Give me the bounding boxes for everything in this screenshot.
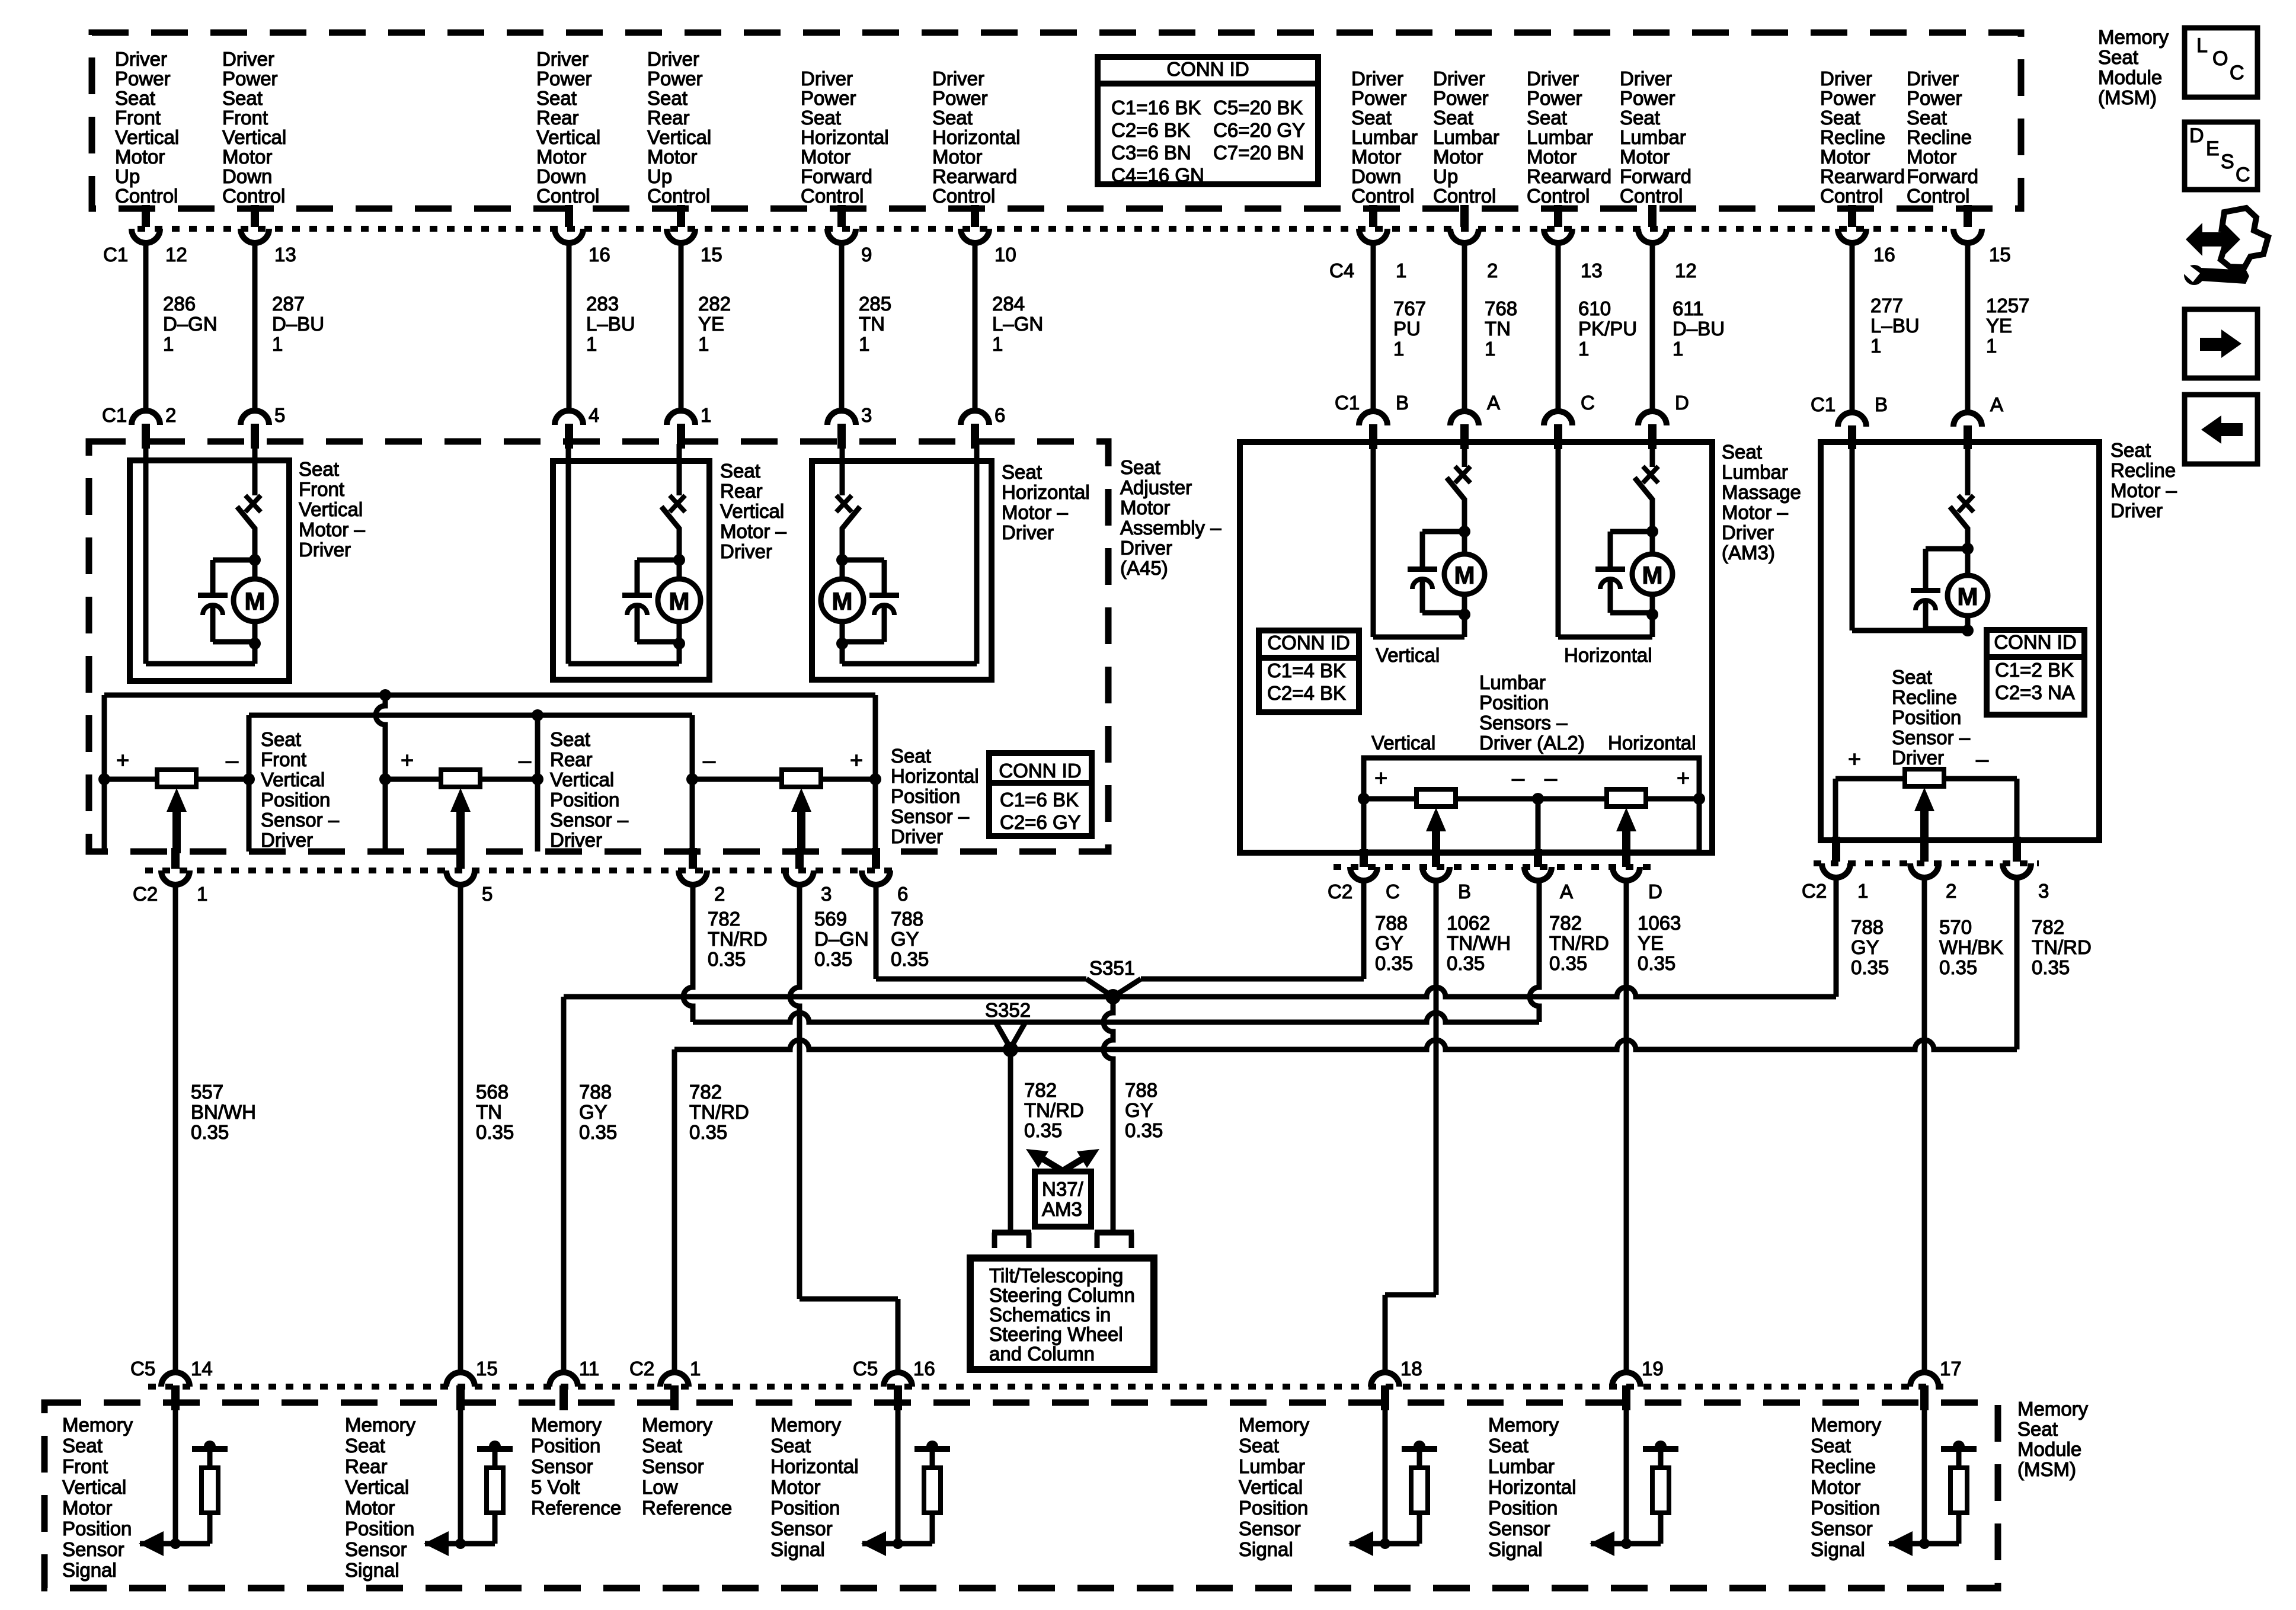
svg-text:Adjuster: Adjuster [1120, 476, 1192, 498]
svg-text:C2=3 NA: C2=3 NA [1995, 681, 2075, 703]
svg-text:TN/RD: TN/RD [689, 1101, 749, 1123]
svg-text:GY: GY [1375, 932, 1403, 954]
wire 788 GY (lumbar C to S351) [1113, 881, 1413, 997]
svg-text:3: 3 [2038, 880, 2049, 902]
svg-text:Up: Up [647, 165, 672, 187]
svg-text:Down: Down [536, 165, 586, 187]
svg-text:Memory: Memory [770, 1414, 842, 1436]
Seat Lumbar Massage Motor (AM3) box [1240, 442, 1712, 853]
svg-text:6: 6 [994, 404, 1005, 426]
svg-text:Driver: Driver [536, 48, 589, 70]
svg-text:Seat: Seat [222, 87, 263, 109]
Seat Recline Motor box [1821, 442, 2099, 840]
svg-text:C2: C2 [629, 1358, 654, 1379]
svg-text:Sensor: Sensor [770, 1518, 833, 1539]
svg-text:A: A [1560, 881, 1573, 902]
svg-text:Control: Control [932, 185, 995, 207]
svg-text:Vertical: Vertical [261, 769, 325, 790]
svg-text:Seat: Seat [345, 1435, 385, 1457]
svg-text:Tilt/Telescoping: Tilt/Telescoping [989, 1265, 1123, 1286]
svg-text:Power: Power [115, 68, 171, 89]
svg-text:S352: S352 [985, 999, 1031, 1021]
svg-text:Up: Up [115, 165, 140, 187]
svg-text:782: 782 [1024, 1079, 1057, 1101]
svg-text:Position: Position [1239, 1497, 1308, 1519]
svg-text:Motor: Motor [1527, 146, 1576, 168]
svg-text:Seat: Seat [1002, 461, 1042, 483]
svg-text:Front: Front [222, 107, 268, 129]
label Memory Seat Lumbar Vertical [1239, 1414, 1310, 1560]
label driver control 285 [801, 68, 889, 207]
svg-text:Rear: Rear [550, 748, 593, 770]
svg-text:Rear: Rear [345, 1455, 388, 1477]
svg-text:0.35: 0.35 [1024, 1119, 1062, 1141]
svg-text:TN/RD: TN/RD [1549, 932, 1609, 954]
svg-text:Motor: Motor [647, 146, 697, 168]
svg-text:Lumbar: Lumbar [1488, 1455, 1555, 1477]
wire 1257 YE pin 15->A [1953, 205, 2029, 449]
svg-text:1: 1 [690, 1358, 701, 1379]
svg-text:568: 568 [476, 1081, 509, 1103]
svg-text:TN: TN [859, 313, 885, 335]
wire 782 TN/RD (C2-2 to S352 bus) [683, 885, 768, 1022]
svg-text:Recline: Recline [1820, 126, 1885, 148]
svg-text:Seat: Seat [1907, 107, 1947, 129]
connector MSM bottom pin 16 [853, 1358, 935, 1410]
label C1 (AM3 top row) [1335, 392, 1360, 414]
svg-text:Sensor: Sensor [1811, 1518, 1873, 1539]
svg-text:Control: Control [1620, 185, 1683, 207]
svg-text:Motor –: Motor – [1722, 501, 1789, 523]
svg-text:Module: Module [2017, 1438, 2081, 1460]
svg-text:Motor: Motor [115, 146, 165, 168]
svg-text:Seat: Seat [891, 745, 931, 767]
svg-text:L–GN: L–GN [992, 313, 1043, 335]
svg-text:Seat: Seat [2017, 1418, 2058, 1440]
svg-text:Motor: Motor [1820, 146, 1870, 168]
svg-text:Signal: Signal [770, 1538, 825, 1560]
svg-text:3: 3 [861, 404, 872, 426]
svg-text:Signal: Signal [345, 1559, 399, 1581]
motor Seat Rear Vertical Motor - Driver [553, 444, 709, 680]
svg-text:WH/BK: WH/BK [1939, 936, 2003, 958]
svg-text:(MSM): (MSM) [2017, 1458, 2076, 1480]
label driver control 768 [1433, 68, 1499, 207]
svg-text:Sensor: Sensor [1239, 1518, 1301, 1539]
svg-text:Recline: Recline [1811, 1455, 1876, 1477]
svg-text:Position: Position [550, 789, 619, 811]
CONN ID table (AM3) [1259, 630, 1359, 712]
svg-text:Position: Position [62, 1518, 132, 1539]
svg-text:Driver: Driver [1722, 521, 1774, 543]
svg-text:Seat: Seat [2098, 46, 2138, 68]
svg-text:15: 15 [1989, 244, 2011, 265]
svg-text:5 Volt: 5 Volt [531, 1476, 580, 1498]
svg-text:Seat: Seat [62, 1435, 103, 1457]
svg-text:15: 15 [701, 244, 722, 265]
svg-text:782: 782 [708, 908, 740, 930]
svg-text:+: + [1848, 747, 1861, 772]
label C1 (recline top row) [1811, 393, 1835, 415]
svg-text:Motor: Motor [536, 146, 586, 168]
svg-text:782: 782 [689, 1081, 722, 1103]
connector MSM bottom pin 1 [629, 1358, 701, 1410]
svg-text:1062: 1062 [1447, 912, 1490, 934]
MSM bottom connector dotted line [148, 1384, 1950, 1390]
svg-text:Horizontal: Horizontal [1608, 732, 1696, 754]
svg-text:Control: Control [1820, 185, 1883, 207]
svg-text:C2: C2 [1802, 880, 1827, 902]
svg-text:Front: Front [115, 107, 161, 129]
svg-text:5: 5 [482, 883, 493, 905]
splice S351 and 788 GY bus [564, 957, 1836, 1004]
label Memory Seat Front Vertical [62, 1414, 133, 1581]
svg-text:Rearward: Rearward [1527, 165, 1611, 187]
svg-text:–: – [703, 748, 716, 773]
svg-text:Motor: Motor [62, 1497, 112, 1519]
wire 568 TN 0.35 [461, 885, 514, 1372]
label C2 (recline bottom row) [1802, 880, 1827, 902]
svg-text:5: 5 [274, 404, 285, 426]
svg-text:Motor: Motor [1620, 146, 1670, 168]
connector A45 C2 pin 5 [446, 848, 493, 905]
svg-text:Motor –: Motor – [1002, 501, 1069, 523]
svg-text:Driver: Driver [801, 68, 853, 89]
svg-text:AM3: AM3 [1042, 1198, 1082, 1220]
svg-text:C: C [2230, 62, 2244, 84]
label Seat Recline Position Sensor [1892, 666, 1971, 769]
label Vertical (lumbar motor) [1376, 644, 1440, 666]
svg-text:15: 15 [476, 1358, 498, 1379]
svg-text:1: 1 [701, 404, 711, 426]
wire 1063 YE 0.35 [1626, 881, 1681, 1372]
label Memory Seat Rear Vertical [345, 1414, 416, 1581]
wire 767 PU pin 1->B [1359, 205, 1426, 449]
label Seat Rear Vertical Motor [720, 460, 787, 562]
svg-text:C2=4 BK: C2=4 BK [1267, 682, 1346, 704]
wire A45 sensor - rail [249, 709, 692, 779]
wire 788 GY (S351 drop) [1104, 997, 1163, 1230]
svg-text:Vertical: Vertical [720, 500, 784, 522]
svg-text:Front: Front [261, 748, 306, 770]
svg-text:788: 788 [579, 1081, 612, 1103]
svg-text:Horizontal: Horizontal [932, 126, 1021, 148]
svg-text:Driver: Driver [647, 48, 699, 70]
label Memory Seat Horizontal Motor [770, 1414, 859, 1560]
svg-text:Control: Control [647, 185, 710, 207]
CONN ID table (MSM) [1098, 57, 1318, 186]
wire 570 WH/BK 0.35 [1924, 878, 2003, 1372]
svg-text:1: 1 [1857, 880, 1868, 902]
svg-text:282: 282 [698, 293, 731, 315]
svg-text:14: 14 [191, 1358, 213, 1379]
svg-text:Steering Wheel: Steering Wheel [989, 1323, 1123, 1345]
svg-text:Sensor: Sensor [62, 1538, 124, 1560]
svg-text:Sensor: Sensor [1488, 1518, 1550, 1539]
connector MSM bottom pin 19 [1612, 1358, 1664, 1410]
svg-text:Seat: Seat [299, 458, 339, 480]
label driver control 277 [1820, 68, 1905, 207]
connector AM3 C2 pin B [1422, 849, 1471, 902]
label Horizontal (lumbar sensor) [1608, 732, 1696, 754]
svg-text:L–BU: L–BU [586, 313, 635, 335]
svg-text:M: M [1642, 561, 1663, 589]
svg-text:Horizontal: Horizontal [891, 765, 979, 787]
svg-text:Position: Position [1811, 1497, 1880, 1519]
svg-text:Control: Control [1433, 185, 1496, 207]
svg-text:2: 2 [714, 883, 725, 905]
svg-text:Driver: Driver [550, 829, 602, 851]
svg-text:Reference: Reference [531, 1497, 621, 1519]
wire 283 L–BU pin 16->4 [555, 205, 635, 449]
svg-text:287: 287 [272, 293, 305, 315]
svg-text:C3=6 BN: C3=6 BN [1111, 142, 1191, 164]
svg-text:Seat: Seat [647, 87, 687, 109]
connector MSM bottom pin 17 [1910, 1358, 1962, 1410]
svg-text:Position: Position [770, 1497, 840, 1519]
label C4 (MSM lumbar row) [1329, 260, 1354, 281]
svg-text:Power: Power [536, 68, 592, 89]
wire 1062 TN/WH 0.35 [1385, 881, 1511, 1372]
wire 788 GY (recline 1) [1836, 878, 1889, 997]
label driver control 1257 [1907, 68, 1978, 207]
wire 569 D-GN 0.35 [790, 885, 898, 1372]
label Lumbar Position Sensors - Driver (AL2) [1479, 671, 1585, 754]
svg-text:Driver: Driver [1527, 68, 1579, 89]
svg-text:Module: Module [2098, 66, 2162, 88]
svg-text:0.35: 0.35 [191, 1121, 229, 1143]
svg-text:Seat: Seat [1351, 107, 1392, 129]
connector AM3 C2 pin C [1350, 849, 1400, 902]
svg-text:(AM3): (AM3) [1722, 542, 1775, 564]
svg-text:1: 1 [1986, 335, 1997, 357]
svg-text:C1: C1 [102, 404, 127, 426]
svg-text:610: 610 [1578, 297, 1611, 319]
svg-text:767: 767 [1393, 297, 1426, 319]
svg-text:2: 2 [165, 404, 176, 426]
sensor signal resistor at pin 14 [139, 1406, 228, 1556]
svg-text:Seat: Seat [1722, 441, 1762, 463]
svg-text:TN/RD: TN/RD [2032, 936, 2092, 958]
label driver control 283 [536, 48, 600, 207]
CONN ID table (recline) [1987, 630, 2084, 715]
svg-text:–: – [226, 748, 239, 773]
svg-text:Seat: Seat [550, 728, 590, 750]
svg-text:16: 16 [589, 244, 610, 265]
svg-text:YE: YE [1986, 315, 2012, 337]
svg-text:Power: Power [1620, 87, 1675, 109]
svg-text:0.35: 0.35 [1851, 956, 1889, 978]
svg-text:+: + [401, 748, 414, 773]
svg-text:Driver: Driver [1907, 68, 1959, 89]
svg-text:Signal: Signal [1811, 1538, 1865, 1560]
svg-text:Motor: Motor [222, 146, 272, 168]
svg-text:+: + [1677, 766, 1690, 791]
svg-text:Seat: Seat [1488, 1435, 1528, 1457]
svg-text:782: 782 [2032, 916, 2064, 938]
wire 286 D–GN pin 12->2 [132, 205, 218, 449]
label Horizontal (lumbar motor) [1564, 644, 1652, 666]
svg-text:O: O [2212, 47, 2228, 70]
svg-text:4: 4 [589, 404, 599, 426]
label driver control 284 [932, 68, 1021, 207]
svg-text:M: M [1454, 561, 1475, 589]
CONN ID table (A45) [989, 753, 1092, 836]
svg-text:Lumbar: Lumbar [1479, 671, 1546, 693]
connector recline C2 pin 1 [1822, 837, 1868, 902]
wire 557 BN/WH 0.35 [175, 885, 256, 1372]
svg-text:Driver: Driver [261, 829, 313, 851]
motor Seat Recline [1852, 444, 1988, 636]
svg-text:D–GN: D–GN [163, 313, 218, 335]
label Seat Lumbar Massage Motor [1722, 441, 1801, 564]
svg-text:Signal: Signal [62, 1559, 117, 1581]
label Seat Rear Vertical Position Sensor [550, 728, 629, 851]
svg-text:L: L [2196, 34, 2208, 57]
svg-text:Driver: Driver [1351, 68, 1403, 89]
wire 768 TN pin 2->A [1450, 205, 1517, 449]
svg-text:L–BU: L–BU [1870, 315, 1920, 337]
svg-text:+: + [116, 748, 129, 773]
svg-text:Seat: Seat [801, 107, 841, 129]
svg-text:PU: PU [1393, 318, 1421, 340]
svg-text:Lumbar: Lumbar [1722, 461, 1788, 483]
svg-text:+: + [850, 748, 863, 773]
connector recline C2 pin 2 [1910, 837, 1956, 902]
svg-text:Seat: Seat [1820, 107, 1860, 129]
wire 285 TN pin 9->3 [827, 205, 891, 449]
svg-text:Driver: Driver [932, 68, 984, 89]
svg-text:Rear: Rear [647, 107, 690, 129]
position sensor Seat Front Vertical (pot) [98, 748, 255, 853]
svg-text:Driver (AL2): Driver (AL2) [1479, 732, 1585, 754]
svg-text:C1=16 BK: C1=16 BK [1111, 97, 1201, 119]
svg-text:Down: Down [222, 165, 272, 187]
svg-text:277: 277 [1870, 295, 1903, 316]
svg-text:TN/RD: TN/RD [1024, 1099, 1084, 1121]
svg-text:–: – [1512, 766, 1525, 791]
wire 287 D–BU pin 13->5 [241, 205, 324, 449]
wire 782 TN/RD bus2 [693, 1013, 1539, 1022]
sensor signal resistor at pin 15 [424, 1406, 513, 1556]
connector A45 C2 pin 1 [161, 848, 207, 905]
svg-text:17: 17 [1940, 1358, 1962, 1379]
label C1 (MSM top row) [103, 244, 128, 265]
svg-text:Sensor: Sensor [642, 1455, 704, 1477]
svg-text:1063: 1063 [1638, 912, 1681, 934]
svg-text:1: 1 [992, 333, 1003, 355]
svg-text:A: A [1990, 393, 2003, 415]
svg-text:Power: Power [801, 87, 856, 109]
svg-text:TN: TN [476, 1101, 502, 1123]
AM3 C2 dotted line [1334, 864, 1654, 870]
svg-text:Rearward: Rearward [932, 165, 1017, 187]
svg-text:C7=20 BN: C7=20 BN [1213, 142, 1304, 164]
label Memory Seat Sensor Low [642, 1414, 732, 1519]
connector A45 C2 pin 6 [862, 848, 908, 905]
svg-text:TN/WH: TN/WH [1447, 932, 1511, 954]
svg-text:Sensors –: Sensors – [1479, 712, 1568, 734]
svg-text:Driver: Driver [222, 48, 274, 70]
svg-text:Position: Position [1892, 706, 1961, 728]
svg-text:Vertical: Vertical [550, 769, 614, 790]
svg-text:Horizontal: Horizontal [1564, 644, 1652, 666]
svg-text:Driver: Driver [1620, 68, 1672, 89]
svg-text:N37/: N37/ [1042, 1178, 1084, 1200]
svg-text:611: 611 [1673, 297, 1704, 319]
svg-text:Vertical: Vertical [647, 126, 711, 148]
svg-text:Driver: Driver [1002, 521, 1054, 543]
svg-text:C1=4 BK: C1=4 BK [1267, 660, 1346, 681]
wire 788 GY (C2-6 to S351) [876, 885, 1113, 997]
svg-text:Signal: Signal [1488, 1538, 1543, 1560]
svg-text:BN/WH: BN/WH [191, 1101, 256, 1123]
svg-text:C1: C1 [103, 244, 128, 265]
svg-text:Schematics in: Schematics in [989, 1304, 1111, 1326]
svg-text:Motor: Motor [770, 1476, 820, 1498]
svg-text:Driver: Driver [720, 540, 772, 562]
svg-text:Lumbar: Lumbar [1351, 126, 1418, 148]
svg-text:Power: Power [1527, 87, 1582, 109]
svg-text:285: 285 [859, 293, 891, 315]
svg-text:Vertical: Vertical [345, 1476, 409, 1498]
svg-text:B: B [1396, 392, 1409, 414]
svg-text:19: 19 [1642, 1358, 1664, 1379]
svg-text:GY: GY [891, 928, 919, 950]
svg-text:768: 768 [1485, 297, 1517, 319]
motor Lumbar Horizontal [1558, 444, 1673, 637]
svg-text:Power: Power [1820, 87, 1876, 109]
svg-text:Seat: Seat [2110, 439, 2151, 461]
svg-text:Vertical: Vertical [1376, 644, 1440, 666]
svg-text:0.35: 0.35 [891, 948, 929, 970]
svg-text:Up: Up [1433, 165, 1458, 187]
svg-text:E: E [2206, 137, 2220, 160]
svg-text:1: 1 [1578, 338, 1589, 360]
label driver control 611 [1620, 68, 1691, 207]
svg-text:Seat: Seat [1527, 107, 1567, 129]
svg-text:Forward: Forward [801, 165, 872, 187]
wire 782 TN/RD (recline 3) [2017, 878, 2092, 1049]
svg-text:Control: Control [1527, 185, 1590, 207]
svg-text:Seat: Seat [1120, 456, 1160, 478]
svg-text:0.35: 0.35 [1939, 956, 1977, 978]
label Seat Horizontal Position Sensor [891, 745, 979, 847]
svg-text:S351: S351 [1089, 957, 1135, 979]
svg-text:Motor: Motor [1811, 1476, 1860, 1498]
svg-text:Front: Front [62, 1455, 108, 1477]
svg-text:16: 16 [1873, 244, 1895, 265]
svg-text:Position: Position [531, 1435, 600, 1457]
svg-text:788: 788 [1851, 916, 1884, 938]
svg-text:D: D [1648, 881, 1662, 902]
svg-text:1: 1 [586, 333, 597, 355]
svg-text:Vertical: Vertical [299, 498, 363, 520]
svg-text:C1: C1 [1811, 393, 1835, 415]
svg-text:Vertical: Vertical [1371, 732, 1435, 754]
svg-text:1: 1 [272, 333, 283, 355]
label Memory Position Sensor 5 Volt [531, 1414, 621, 1519]
svg-text:Recline: Recline [1892, 686, 1957, 708]
label Seat Adjuster Motor Assembly [1120, 456, 1221, 579]
connector MSM bottom pin 14 [130, 1358, 213, 1410]
svg-text:Sensor –: Sensor – [261, 809, 340, 831]
svg-text:570: 570 [1939, 916, 1972, 938]
svg-text:569: 569 [814, 908, 847, 930]
MSM C1/C4 connector dotted line [137, 226, 1947, 232]
svg-text:0.35: 0.35 [2032, 956, 2070, 978]
svg-text:Horizontal: Horizontal [770, 1455, 859, 1477]
